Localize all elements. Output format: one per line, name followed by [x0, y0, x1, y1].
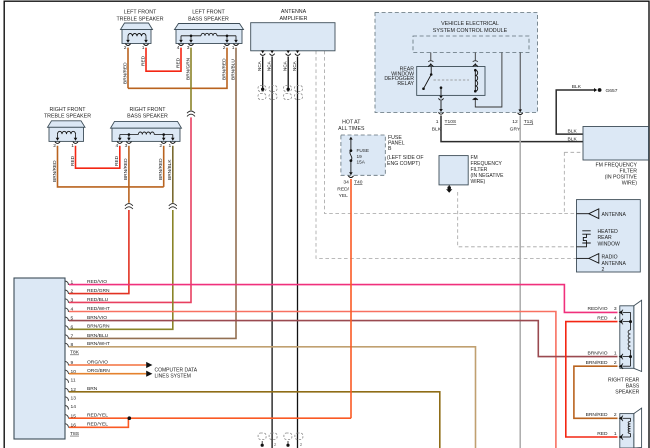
svg-text:HOT AT: HOT AT: [342, 120, 361, 126]
svg-text:T8K: T8K: [70, 350, 80, 356]
svg-text:1: 1: [169, 143, 172, 149]
svg-text:RED: RED: [140, 55, 146, 66]
svg-text:RED: RED: [70, 155, 76, 166]
svg-text:BLK: BLK: [568, 136, 578, 142]
svg-text:14: 14: [71, 404, 77, 410]
svg-text:BASS SPEAKER: BASS SPEAKER: [188, 16, 229, 22]
svg-text:RELAY: RELAY: [397, 81, 414, 87]
svg-text:T12j: T12j: [524, 119, 534, 125]
svg-text:12: 12: [512, 119, 518, 125]
svg-text:RED: RED: [597, 315, 608, 321]
svg-text:15A: 15A: [357, 160, 366, 165]
svg-text:SPEAKER: SPEAKER: [615, 390, 639, 396]
svg-text:ALL TIMES: ALL TIMES: [338, 126, 365, 132]
svg-text:G657: G657: [606, 88, 618, 94]
svg-text:BLK: BLK: [572, 84, 582, 90]
svg-text:1: 1: [614, 431, 617, 437]
svg-text:AMPLIFIER: AMPLIFIER: [280, 16, 308, 22]
svg-text:BRN/RED: BRN/RED: [586, 360, 608, 366]
svg-text:BRN/RED: BRN/RED: [221, 58, 227, 80]
svg-text:BRN/BLU: BRN/BLU: [87, 333, 109, 339]
svg-text:HEATED: HEATED: [598, 229, 619, 235]
svg-text:NCA: NCA: [292, 60, 297, 71]
svg-text:RED: RED: [114, 155, 120, 166]
svg-text:RIGHT FRONT: RIGHT FRONT: [49, 107, 86, 113]
svg-text:RED/VIO: RED/VIO: [587, 306, 607, 312]
svg-text:BRN/BLU: BRN/BLU: [230, 59, 236, 80]
svg-text:REAR: REAR: [598, 235, 612, 241]
svg-text:BRN/RED: BRN/RED: [158, 158, 164, 180]
svg-text:GRY: GRY: [510, 127, 521, 133]
svg-text:RED: RED: [597, 431, 608, 437]
svg-text:BRN/RED: BRN/RED: [52, 160, 58, 182]
svg-text:34: 34: [343, 179, 349, 185]
svg-text:1: 1: [71, 143, 74, 149]
svg-text:RIGHT FRONT: RIGHT FRONT: [129, 107, 166, 113]
svg-text:BRN/GRN: BRN/GRN: [87, 324, 110, 330]
svg-text:4: 4: [116, 143, 119, 149]
svg-text:19: 19: [357, 154, 363, 159]
svg-text:3: 3: [71, 298, 74, 304]
svg-text:13: 13: [71, 396, 77, 402]
svg-text:YEL: YEL: [339, 193, 349, 199]
svg-text:2: 2: [159, 143, 162, 149]
svg-text:2: 2: [71, 289, 74, 295]
svg-text:ANTENNA: ANTENNA: [602, 212, 627, 218]
svg-text:2: 2: [223, 45, 226, 51]
svg-text:1: 1: [142, 45, 145, 51]
svg-text:3: 3: [125, 143, 128, 149]
svg-text:FUSE: FUSE: [357, 148, 370, 153]
svg-text:RADIO: RADIO: [602, 255, 618, 261]
svg-text:TREBLE SPEAKER: TREBLE SPEAKER: [116, 16, 163, 22]
svg-text:BRN/RED: BRN/RED: [123, 158, 129, 180]
svg-text:3: 3: [614, 306, 617, 312]
svg-text:RED: RED: [175, 57, 181, 68]
svg-text:NCA: NCA: [283, 60, 288, 71]
svg-text:BRN/RED: BRN/RED: [586, 412, 608, 418]
svg-text:ANTENNA: ANTENNA: [281, 9, 307, 15]
svg-text:6: 6: [71, 324, 74, 330]
svg-text:11: 11: [71, 378, 76, 384]
svg-text:2: 2: [602, 267, 605, 273]
svg-text:NCA: NCA: [257, 60, 262, 71]
svg-text:BRN/GRN: BRN/GRN: [185, 57, 191, 80]
svg-text:1: 1: [232, 45, 235, 51]
svg-text:T40: T40: [354, 179, 363, 185]
svg-text:BASS SPEAKER: BASS SPEAKER: [127, 114, 168, 120]
svg-text:4: 4: [177, 45, 180, 51]
svg-text:RED/BLU: RED/BLU: [87, 297, 109, 303]
svg-text:LEFT FRONT: LEFT FRONT: [124, 10, 157, 16]
svg-text:ENG COMPT): ENG COMPT): [387, 161, 420, 167]
svg-text:BRN/BLK: BRN/BLK: [167, 159, 173, 180]
svg-text:ANTENNA: ANTENNA: [602, 261, 627, 267]
svg-text:7: 7: [71, 334, 74, 340]
svg-text:BRN/VIO: BRN/VIO: [587, 350, 607, 356]
svg-text:BRN/RED: BRN/RED: [122, 62, 128, 84]
svg-text:3: 3: [187, 45, 190, 51]
svg-text:BLK: BLK: [568, 129, 578, 135]
svg-text:SYSTEM CONTROL MODULE: SYSTEM CONTROL MODULE: [433, 28, 508, 34]
svg-text:4: 4: [614, 315, 617, 321]
svg-text:LINES SYSTEM: LINES SYSTEM: [155, 374, 191, 380]
svg-text:2: 2: [614, 412, 617, 418]
svg-text:NCA: NCA: [266, 60, 271, 71]
svg-text:WIRE): WIRE): [471, 179, 486, 185]
svg-text:COMPUTER DATA: COMPUTER DATA: [155, 367, 198, 373]
svg-text:B: B: [388, 146, 392, 152]
svg-text:T10S: T10S: [445, 119, 457, 125]
svg-text:RED/GRN: RED/GRN: [87, 288, 110, 294]
svg-text:VEHICLE ELECTRICAL: VEHICLE ELECTRICAL: [441, 21, 499, 27]
svg-text:BLK: BLK: [432, 127, 442, 133]
svg-text:T8S: T8S: [70, 431, 80, 437]
svg-text:1: 1: [436, 119, 439, 125]
svg-text:WINDOW: WINDOW: [598, 241, 621, 247]
svg-text:2: 2: [53, 143, 56, 149]
svg-text:2: 2: [124, 45, 127, 51]
svg-text:LEFT FRONT: LEFT FRONT: [192, 10, 225, 16]
svg-text:1: 1: [614, 350, 617, 356]
svg-text:2: 2: [614, 360, 617, 366]
svg-text:RED/: RED/: [337, 187, 349, 193]
svg-text:TREBLE SPEAKER: TREBLE SPEAKER: [44, 114, 91, 120]
svg-text:WIRE): WIRE): [622, 180, 638, 186]
